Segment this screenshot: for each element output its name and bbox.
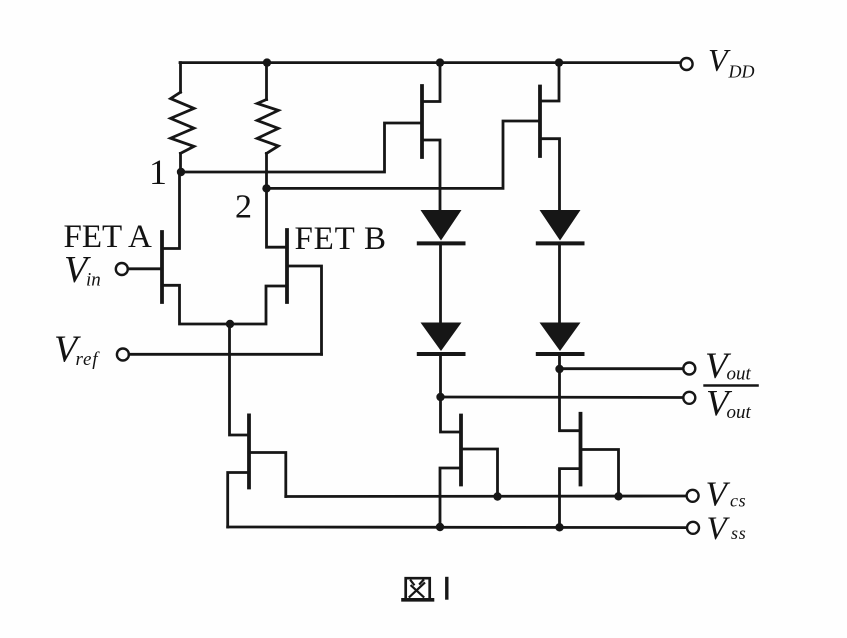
resistor R1 bbox=[171, 63, 194, 172]
caption: figure number 1 bbox=[445, 579, 448, 599]
transistor M4 (top right load) bbox=[540, 63, 560, 210]
transistor M7 (right cascode) bbox=[560, 414, 619, 528]
wire: between D1 and D2 bbox=[439, 243, 442, 322]
node: R2 junction on VDD rail bbox=[263, 58, 271, 66]
wire: Vin to FET A gate bbox=[128, 267, 162, 270]
node: M6 gate on Vcs rail bbox=[493, 492, 501, 500]
caption: kanji ZU (figure) bbox=[403, 578, 433, 600]
node: M3 drain junction on VDD rail bbox=[436, 58, 444, 66]
node: M7 gate on Vcs rail bbox=[614, 492, 622, 500]
svg-text:2: 2 bbox=[235, 189, 252, 226]
wire: Vref to FET B gate bbox=[129, 353, 322, 356]
wire: D2 to M6 drain bbox=[441, 354, 462, 432]
wire: between D3 and D4 bbox=[558, 243, 561, 322]
svg-text:V: V bbox=[707, 511, 731, 547]
svg-text:in: in bbox=[86, 270, 101, 291]
wire: Vcs rail bbox=[286, 495, 687, 498]
wire: node 2 to M4 gate bbox=[267, 121, 541, 188]
wire: VDD top rail bbox=[180, 61, 681, 64]
transistor M6 (left cascode) bbox=[440, 416, 498, 528]
terminal Vcs bbox=[687, 490, 699, 502]
svg-text:ss: ss bbox=[731, 523, 747, 543]
svg-text:1: 1 bbox=[149, 152, 167, 192]
diode D2 (left lower) bbox=[419, 323, 464, 355]
node 2 bbox=[262, 184, 270, 192]
node: M6 source on Vss rail bbox=[436, 523, 444, 531]
svg-text:V: V bbox=[706, 475, 731, 514]
node: tail junction bbox=[226, 320, 234, 328]
diode D3 (right upper) bbox=[538, 210, 583, 243]
transistor FET B bbox=[230, 188, 322, 354]
terminal Vout bbox=[683, 363, 695, 375]
resistor R2 bbox=[257, 63, 278, 189]
node: Vout junction bbox=[555, 365, 563, 373]
node: Vout-bar junction bbox=[436, 393, 444, 401]
transistor FET A bbox=[162, 172, 230, 324]
svg-text:out: out bbox=[727, 364, 752, 385]
node: M7 source on Vss rail bbox=[555, 523, 563, 531]
svg-text:cs: cs bbox=[730, 491, 746, 511]
wire: Vss rail bbox=[228, 526, 687, 529]
svg-text:out: out bbox=[727, 402, 752, 423]
diode D1 (left upper) bbox=[419, 210, 464, 243]
terminal Vout-bar bbox=[683, 392, 695, 404]
wire: D4 to M7 drain bbox=[560, 354, 581, 431]
node: M4 drain junction on VDD rail bbox=[555, 58, 563, 66]
transistor M5 (tail current source) bbox=[228, 415, 286, 527]
terminal Vin bbox=[116, 263, 128, 275]
wire: Vout bbox=[560, 367, 684, 370]
wire: Vout-bar bbox=[441, 396, 684, 399]
transistor M3 (top left load) bbox=[422, 63, 440, 210]
terminal VDD bbox=[681, 58, 693, 70]
node 1 bbox=[177, 168, 185, 176]
svg-text:ref: ref bbox=[76, 349, 101, 370]
wire: node 1 to M3 gate bbox=[181, 123, 422, 172]
diode D4 (right lower) bbox=[538, 323, 583, 355]
label Vout-bar bbox=[705, 384, 758, 425]
terminal Vref bbox=[117, 349, 129, 361]
svg-text:DD: DD bbox=[728, 62, 755, 82]
terminal Vss bbox=[687, 522, 699, 534]
wire: tail to M5 drain bbox=[230, 324, 250, 435]
svg-text:FET B: FET B bbox=[295, 221, 387, 257]
